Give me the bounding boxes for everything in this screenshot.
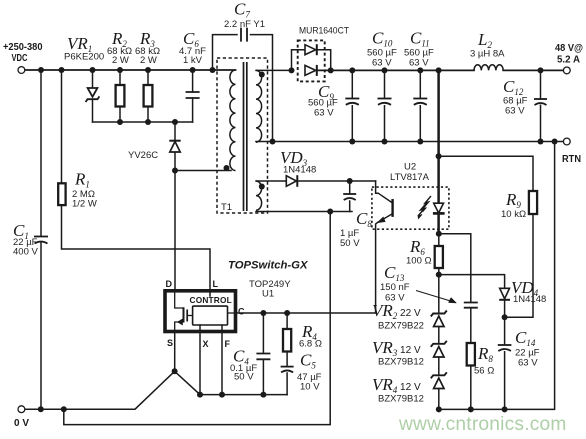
wire C7 right branch xyxy=(251,35,273,142)
diode VD3 xyxy=(286,175,297,187)
wire C4 column xyxy=(262,313,264,395)
svg-text:TOPSwitch-GX: TOPSwitch-GX xyxy=(228,260,309,272)
wire C6 leads xyxy=(192,70,194,122)
junction dots primary top rail xyxy=(38,67,216,73)
resistor R9 xyxy=(529,191,537,214)
wire rectifier anode branch xyxy=(292,50,305,71)
svg-text:48 V@: 48 V@ xyxy=(555,43,583,54)
wire R6 leads xyxy=(438,234,440,275)
wire C13 to R8 xyxy=(470,308,472,343)
svg-text:L: L xyxy=(213,279,219,289)
wire C10 xyxy=(384,70,386,141)
resistor R6 xyxy=(435,246,443,268)
junction dots feedback chain xyxy=(436,153,508,412)
wire C8 bottom xyxy=(349,201,351,212)
transformer T1 dashed box xyxy=(217,58,268,213)
wire R6 node to VD4 xyxy=(439,275,505,288)
svg-text:RTN: RTN xyxy=(562,154,581,165)
svg-text:63 V: 63 V xyxy=(518,358,538,369)
capacitor C9 xyxy=(345,99,359,105)
rectifier diode bottom xyxy=(305,65,317,76)
wire lower primary rail xyxy=(93,121,193,123)
wire S to signal ground bus xyxy=(175,371,288,394)
U1 mosfet xyxy=(175,291,193,331)
wire feedback column from 48V rail xyxy=(437,70,440,203)
wire 0V rail xyxy=(25,371,175,409)
svg-text:VDC: VDC xyxy=(12,53,28,64)
transformer primary phase dot xyxy=(224,165,230,171)
zener VR2 xyxy=(431,311,447,327)
svg-text:100 Ω: 100 Ω xyxy=(406,256,432,267)
svg-text:1N4148: 1N4148 xyxy=(513,294,546,305)
wire VD4 node to C14 xyxy=(504,317,506,409)
wire C11 xyxy=(419,70,421,141)
transformer secondary phase dot xyxy=(259,72,265,78)
wire R1 top xyxy=(61,70,63,184)
wire 48V secondary rail xyxy=(318,69,564,71)
IC U1 TOPSwitch box xyxy=(165,291,236,332)
wire VD3 cathode to opto collector xyxy=(297,180,375,182)
wire S pin xyxy=(174,331,176,372)
wire YV26C top xyxy=(174,122,176,140)
junction dots lower primary rail xyxy=(117,119,178,174)
optocoupler emission arrows xyxy=(418,196,431,219)
inductor L2 xyxy=(474,65,503,71)
transformer bias winding xyxy=(256,181,262,210)
capacitor C7 xyxy=(241,28,247,42)
svg-text:0 V: 0 V xyxy=(14,418,29,429)
svg-text:S: S xyxy=(167,338,173,348)
transformer bias phase dot xyxy=(259,184,265,190)
capacitor C8 xyxy=(343,194,356,200)
wire VR1 leads xyxy=(92,70,94,122)
optocoupler phototransistor xyxy=(378,193,393,222)
wire YV26C bottom / node D xyxy=(174,153,176,291)
transformer primary winding xyxy=(230,70,236,171)
svg-text:1/2 W: 1/2 W xyxy=(72,199,97,210)
svg-text:150 nF: 150 nF xyxy=(380,282,410,293)
wire C12 xyxy=(540,70,542,141)
resistor R3 xyxy=(144,85,153,107)
svg-text:2.2 nF Y1: 2.2 nF Y1 xyxy=(224,19,265,30)
capacitor C4 xyxy=(256,354,270,360)
svg-text:2 W: 2 W xyxy=(112,55,129,66)
capacitor C13 xyxy=(464,303,478,308)
svg-text:U1: U1 xyxy=(262,289,274,300)
svg-text:10 V: 10 V xyxy=(300,382,320,393)
resistor R1 xyxy=(58,183,65,205)
svg-text:D: D xyxy=(166,279,173,289)
wire RTN rail xyxy=(256,141,563,143)
svg-text:50 V: 50 V xyxy=(340,238,360,249)
svg-text:BZX79B12: BZX79B12 xyxy=(378,394,424,405)
resistor R2 xyxy=(116,85,125,107)
svg-text:63 V: 63 V xyxy=(372,58,392,69)
svg-text:63 V: 63 V xyxy=(505,106,525,117)
wire secondary bottom rail xyxy=(439,142,555,410)
svg-text:56 Ω: 56 Ω xyxy=(474,366,494,377)
svg-text:400 V: 400 V xyxy=(13,247,38,258)
terminal 0V xyxy=(18,406,25,413)
wire rectifier cathode branch xyxy=(318,50,331,71)
svg-text:63 V: 63 V xyxy=(409,58,429,69)
terminal RTN xyxy=(563,138,570,145)
wire top primary rail xyxy=(25,69,236,71)
transformer core xyxy=(244,62,247,211)
svg-text:X: X xyxy=(203,339,209,349)
wire R9 tap xyxy=(439,156,533,191)
wire zener chain joints xyxy=(438,275,440,410)
diode VD4 xyxy=(499,288,510,300)
svg-text:LTV817A: LTV817A xyxy=(390,172,430,183)
wire opto collector drop xyxy=(376,181,379,193)
svg-text:T1: T1 xyxy=(221,202,232,213)
wire bias return to primary ground xyxy=(64,212,330,425)
junction dots bias and C8 xyxy=(327,178,353,215)
wire R1 bottom to L pin xyxy=(62,205,211,296)
svg-text:+250-380: +250-380 xyxy=(3,42,43,53)
resistor R4 xyxy=(283,329,291,352)
svg-text:U2: U2 xyxy=(404,162,416,173)
terminal +250-380 VDC xyxy=(18,67,25,74)
label arrow for C13 xyxy=(416,291,457,304)
wire VD4 cathode xyxy=(504,301,506,318)
svg-text:3 µH 8A: 3 µH 8A xyxy=(470,49,505,60)
U1 control block link to C pin xyxy=(228,312,236,314)
wire C1 column xyxy=(40,70,42,409)
wire node to C13 xyxy=(439,234,471,302)
wire C8 top xyxy=(349,181,351,194)
capacitor C12 xyxy=(534,99,547,105)
U1 control block xyxy=(193,306,228,325)
terminal 48V output xyxy=(563,67,570,74)
rectifier MUR1640CT dashed box xyxy=(298,40,325,81)
wire C7 left branch xyxy=(213,35,238,70)
resistor R8 xyxy=(467,343,475,366)
svg-text:C: C xyxy=(238,307,245,317)
diode YV26C xyxy=(169,141,180,152)
svg-text:F: F xyxy=(225,339,231,349)
wire C9 xyxy=(351,70,353,141)
junction dots U1 ground bus xyxy=(38,368,267,412)
junction dots C pin wire xyxy=(260,310,290,316)
wire R2 leads xyxy=(119,70,121,122)
junction dots secondary rails xyxy=(270,67,558,144)
svg-text:63 V: 63 V xyxy=(314,108,334,119)
svg-text:CONTROL: CONTROL xyxy=(190,295,232,305)
svg-text:2 W: 2 W xyxy=(140,55,157,66)
wire YV26C to primary winding xyxy=(175,170,231,172)
capacitor C10 xyxy=(378,99,392,105)
capacitor C11 xyxy=(413,99,427,105)
zener VR4 xyxy=(431,372,447,388)
svg-text:BZX79B22: BZX79B22 xyxy=(378,321,424,332)
svg-text:6.8 Ω: 6.8 Ω xyxy=(299,339,322,350)
wire R9 bottom to VD4 node xyxy=(505,214,533,317)
wire X pin xyxy=(199,325,201,395)
wire R8 bottom xyxy=(470,366,472,410)
capacitor C5 xyxy=(281,367,294,373)
optocoupler LED xyxy=(433,203,445,213)
svg-text:5.2 A: 5.2 A xyxy=(557,55,580,66)
svg-text:www.cntronics.com: www.cntronics.com xyxy=(398,414,567,435)
wire F pin xyxy=(221,325,223,395)
zener VR3 xyxy=(431,341,447,357)
capacitor C14 xyxy=(498,345,512,351)
wire bias winding return xyxy=(256,211,352,213)
svg-text:MUR1640CT: MUR1640CT xyxy=(299,26,349,37)
capacitor C6 xyxy=(186,92,200,98)
TVS VR1 P6KE200 xyxy=(86,88,100,102)
svg-text:P6KE200: P6KE200 xyxy=(64,52,104,63)
wire bias winding to VD3 xyxy=(256,180,286,182)
wire secondary top to rectifier xyxy=(256,69,292,71)
rectifier diode top xyxy=(305,44,317,55)
optocoupler U2 dashed box xyxy=(372,187,449,229)
svg-text:1N4148: 1N4148 xyxy=(283,165,316,176)
wire R3 leads xyxy=(147,70,149,122)
svg-text:YV26C: YV26C xyxy=(128,150,158,161)
wire LED cathode to node xyxy=(437,214,440,234)
wire opto emitter to C pin xyxy=(236,222,378,313)
svg-text:1 kV: 1 kV xyxy=(183,55,203,66)
svg-text:BZX79B12: BZX79B12 xyxy=(378,357,424,368)
wire R4 C5 column xyxy=(286,313,288,395)
capacitor C1 xyxy=(34,237,48,244)
svg-text:10 kΩ: 10 kΩ xyxy=(501,209,526,220)
transformer secondary winding xyxy=(256,70,262,142)
svg-text:50 V: 50 V xyxy=(234,372,254,383)
